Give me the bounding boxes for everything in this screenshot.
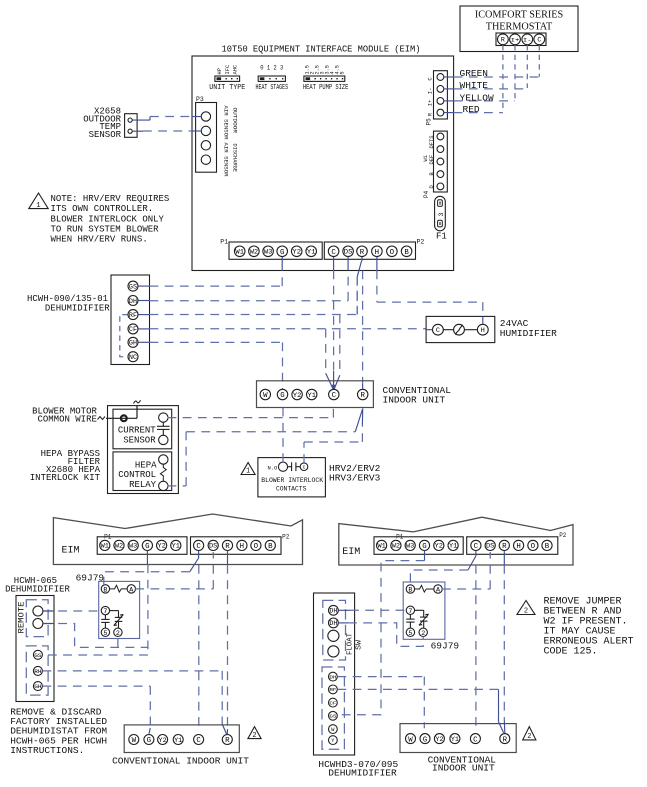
svg-text:2: 2 <box>527 733 531 741</box>
svg-text:5: 5 <box>408 629 412 637</box>
svg-text:RED: RED <box>463 104 480 115</box>
svg-text:BLOWER INTERLOCK ONLY: BLOWER INTERLOCK ONLY <box>51 214 165 224</box>
svg-text:I+: I+ <box>511 37 520 43</box>
svg-text:I-: I- <box>523 37 532 43</box>
svg-text:INDOOR UNIT: INDOOR UNIT <box>383 395 446 406</box>
svg-text:A: A <box>436 585 440 593</box>
svg-text:P2: P2 <box>417 239 425 246</box>
svg-text:H: H <box>516 543 520 551</box>
svg-text:R: R <box>225 737 230 745</box>
svg-text:CODE 125.: CODE 125. <box>544 647 598 658</box>
svg-text:B: B <box>404 249 409 257</box>
svg-text:RH: RH <box>34 668 41 675</box>
svg-text:P2: P2 <box>282 534 290 541</box>
svg-text:69J79: 69J79 <box>431 641 460 652</box>
svg-text:Y2: Y2 <box>157 543 166 550</box>
svg-text:YELLOW: YELLOW <box>460 92 495 103</box>
svg-text:REMOTE: REMOTE <box>17 602 27 634</box>
svg-text:W3: W3 <box>406 543 415 550</box>
svg-text:C: C <box>196 543 201 551</box>
svg-text:DEHUMIDIFIER: DEHUMIDIFIER <box>5 585 70 595</box>
svg-text:1: 1 <box>36 202 40 210</box>
svg-text:G: G <box>280 249 284 257</box>
svg-text:W1: W1 <box>235 249 244 256</box>
svg-text:SENSOR: SENSOR <box>123 435 156 445</box>
svg-text:NC: NC <box>129 354 137 361</box>
svg-text:DEHUMIDIFIER: DEHUMIDIFIER <box>45 303 110 313</box>
svg-text:WHEN HRV/ERV RUNS.: WHEN HRV/ERV RUNS. <box>51 235 148 245</box>
svg-text:IFC: IFC <box>225 65 231 75</box>
svg-text:Y1: Y1 <box>174 737 182 744</box>
svg-text:THERMOSTAT: THERMOSTAT <box>486 22 553 33</box>
svg-text:R: R <box>225 543 230 551</box>
svg-text:Y1: Y1 <box>307 249 316 256</box>
svg-text:R: R <box>502 543 507 551</box>
svg-text:ITS OWN CONTROLLER.: ITS OWN CONTROLLER. <box>51 204 154 214</box>
svg-text:INDOOR UNIT: INDOOR UNIT <box>432 763 495 774</box>
svg-text:CONTACTS: CONTACTS <box>276 486 307 494</box>
svg-text:DS: DS <box>209 543 218 550</box>
svg-text:AIR SENSOR: AIR SENSOR <box>223 106 230 141</box>
svg-text:HEAT PUMP SIZE: HEAT PUMP SIZE <box>303 84 349 92</box>
svg-text:RELAY: RELAY <box>129 480 157 490</box>
svg-text:A: A <box>129 585 133 593</box>
svg-text:O: O <box>390 249 395 257</box>
svg-text:CF: CF <box>329 700 336 706</box>
svg-text:P4: P4 <box>423 190 430 198</box>
svg-text:W2: W2 <box>250 249 259 256</box>
svg-text:HEAT STAGES: HEAT STAGES <box>256 84 289 92</box>
svg-text:HP: HP <box>217 68 223 74</box>
svg-text:G: G <box>145 543 149 551</box>
svg-text:0 1 2 3: 0 1 2 3 <box>260 65 283 72</box>
svg-text:C: C <box>331 249 336 257</box>
svg-text:GH: GH <box>34 683 41 690</box>
svg-text:R: R <box>501 37 505 44</box>
svg-text:BLOWER INTERLOCK: BLOWER INTERLOCK <box>261 477 324 485</box>
svg-text:C: C <box>474 543 479 551</box>
svg-text:OUTDOOR: OUTDOOR <box>232 108 239 134</box>
svg-text:CURRENT: CURRENT <box>118 426 156 436</box>
svg-text:Y2: Y2 <box>159 737 167 744</box>
svg-text:CONVENTIONAL INDOOR UNIT: CONVENTIONAL INDOOR UNIT <box>112 755 249 766</box>
svg-text:Y1: Y1 <box>449 543 458 550</box>
svg-text:Y1: Y1 <box>307 392 316 399</box>
svg-text:CF: CF <box>129 326 137 333</box>
svg-text:WHITE: WHITE <box>460 80 489 91</box>
svg-text:FLOAT: FLOAT <box>347 633 355 655</box>
svg-text:C: C <box>196 737 201 745</box>
svg-text:I+: I+ <box>427 99 434 106</box>
svg-text:NOTE: HRV/ERV REQUIRES: NOTE: HRV/ERV REQUIRES <box>51 194 170 204</box>
svg-text:UNIT TYPE: UNIT TYPE <box>209 84 245 92</box>
svg-text:P2: P2 <box>559 532 567 539</box>
svg-text:DEF: DEF <box>429 155 435 165</box>
svg-text:2: 2 <box>252 732 256 740</box>
svg-text:GREEN: GREEN <box>460 68 489 79</box>
svg-text:AIR SENSOR: AIR SENSOR <box>223 143 230 178</box>
svg-text:D: D <box>429 185 435 188</box>
svg-text:Y2: Y2 <box>292 249 301 256</box>
svg-text:H: H <box>481 327 485 335</box>
svg-text:HEPA: HEPA <box>135 461 157 471</box>
svg-text:DH: DH <box>329 620 337 627</box>
svg-text:3: 3 <box>438 213 445 217</box>
svg-text:HRV3/ERV3: HRV3/ERV3 <box>329 473 381 484</box>
svg-text:R: R <box>360 249 365 257</box>
svg-text:W: W <box>132 737 137 745</box>
svg-text:H: H <box>375 249 379 257</box>
svg-text:C: C <box>303 464 306 470</box>
svg-text:RF: RF <box>129 312 137 319</box>
svg-text:7: 7 <box>408 607 412 615</box>
svg-text:C: C <box>332 392 337 400</box>
svg-text:GS: GS <box>34 652 42 659</box>
svg-text:EIM: EIM <box>342 547 360 558</box>
svg-text:1: 1 <box>246 468 250 476</box>
svg-text:GS: GS <box>329 714 336 720</box>
svg-text:G: G <box>422 543 426 551</box>
svg-text:O: O <box>531 543 536 551</box>
svg-text:2: 2 <box>116 629 120 637</box>
svg-text:B: B <box>408 585 412 593</box>
svg-text:INSTRUCTIONS.: INSTRUCTIONS. <box>10 745 84 756</box>
svg-text:TO RUN SYSTEM BLOWER: TO RUN SYSTEM BLOWER <box>51 224 160 234</box>
svg-text:DH: DH <box>329 674 336 680</box>
svg-text:5: 5 <box>340 71 346 74</box>
svg-text:CONTROL: CONTROL <box>118 470 156 480</box>
svg-text:W1: W1 <box>377 543 386 550</box>
svg-text:DISCHARGE: DISCHARGE <box>232 144 239 173</box>
svg-text:10T50 EQUIPMENT INTERFACE MODU: 10T50 EQUIPMENT INTERFACE MODULE (EIM) <box>222 44 421 55</box>
svg-text:G: G <box>147 737 151 745</box>
svg-text:Y2: Y2 <box>435 543 444 550</box>
svg-text:W2: W2 <box>115 543 124 550</box>
svg-text:GS: GS <box>129 283 137 290</box>
svg-text:P3: P3 <box>196 96 204 103</box>
svg-text:GH: GH <box>129 340 137 347</box>
svg-text:P1: P1 <box>220 239 228 246</box>
svg-text:P5: P5 <box>426 118 433 126</box>
svg-text:C: C <box>473 736 478 744</box>
svg-text:DS: DS <box>486 543 495 550</box>
svg-text:7: 7 <box>103 607 107 615</box>
svg-text:Y1: Y1 <box>451 736 459 743</box>
svg-text:B: B <box>545 543 550 551</box>
svg-text:5: 5 <box>103 629 107 637</box>
svg-text:W3: W3 <box>264 249 273 256</box>
svg-text:RF: RF <box>329 687 336 693</box>
svg-text:COMMON WIRE: COMMON WIRE <box>37 414 96 424</box>
svg-text:DFTS: DFTS <box>429 136 435 149</box>
svg-text:2: 2 <box>421 629 425 637</box>
svg-text:DEHUMIDIFIER: DEHUMIDIFIER <box>328 767 397 778</box>
svg-text:G: G <box>280 392 284 400</box>
svg-text:ICOMFORT SERIES: ICOMFORT SERIES <box>475 10 564 21</box>
svg-text:W: W <box>408 736 413 744</box>
svg-text:AHC: AHC <box>232 65 238 75</box>
svg-text:O: O <box>254 543 259 551</box>
svg-text:C: C <box>537 37 541 44</box>
svg-text:B: B <box>268 543 273 551</box>
svg-text:SENSOR: SENSOR <box>89 130 122 140</box>
svg-text:Y1: Y1 <box>172 543 181 550</box>
svg-text:Y2: Y2 <box>293 392 302 399</box>
svg-text:C: C <box>436 327 440 335</box>
svg-text:W: W <box>263 392 268 400</box>
svg-text:W1: W1 <box>423 155 429 161</box>
svg-text:W2: W2 <box>392 543 401 550</box>
svg-text:H: H <box>240 543 244 551</box>
svg-text:Y2: Y2 <box>435 736 443 743</box>
svg-text:SW: SW <box>356 639 364 650</box>
svg-text:DS: DS <box>344 249 353 256</box>
svg-text:W3: W3 <box>129 543 138 550</box>
svg-text:B: B <box>103 585 107 593</box>
svg-text:2: 2 <box>524 608 528 616</box>
svg-text:F1: F1 <box>436 232 447 242</box>
svg-text:G: G <box>423 736 427 744</box>
svg-text:W1: W1 <box>101 543 110 550</box>
svg-text:DH: DH <box>129 298 137 305</box>
svg-text:R: R <box>360 392 365 400</box>
svg-text:DH: DH <box>329 608 337 615</box>
svg-text:R: R <box>503 736 508 744</box>
svg-text:INTERLOCK KIT: INTERLOCK KIT <box>30 473 101 483</box>
svg-text:EIM: EIM <box>62 546 80 557</box>
svg-text:HUMIDIFIER: HUMIDIFIER <box>500 328 557 339</box>
svg-text:I-: I- <box>427 88 434 95</box>
